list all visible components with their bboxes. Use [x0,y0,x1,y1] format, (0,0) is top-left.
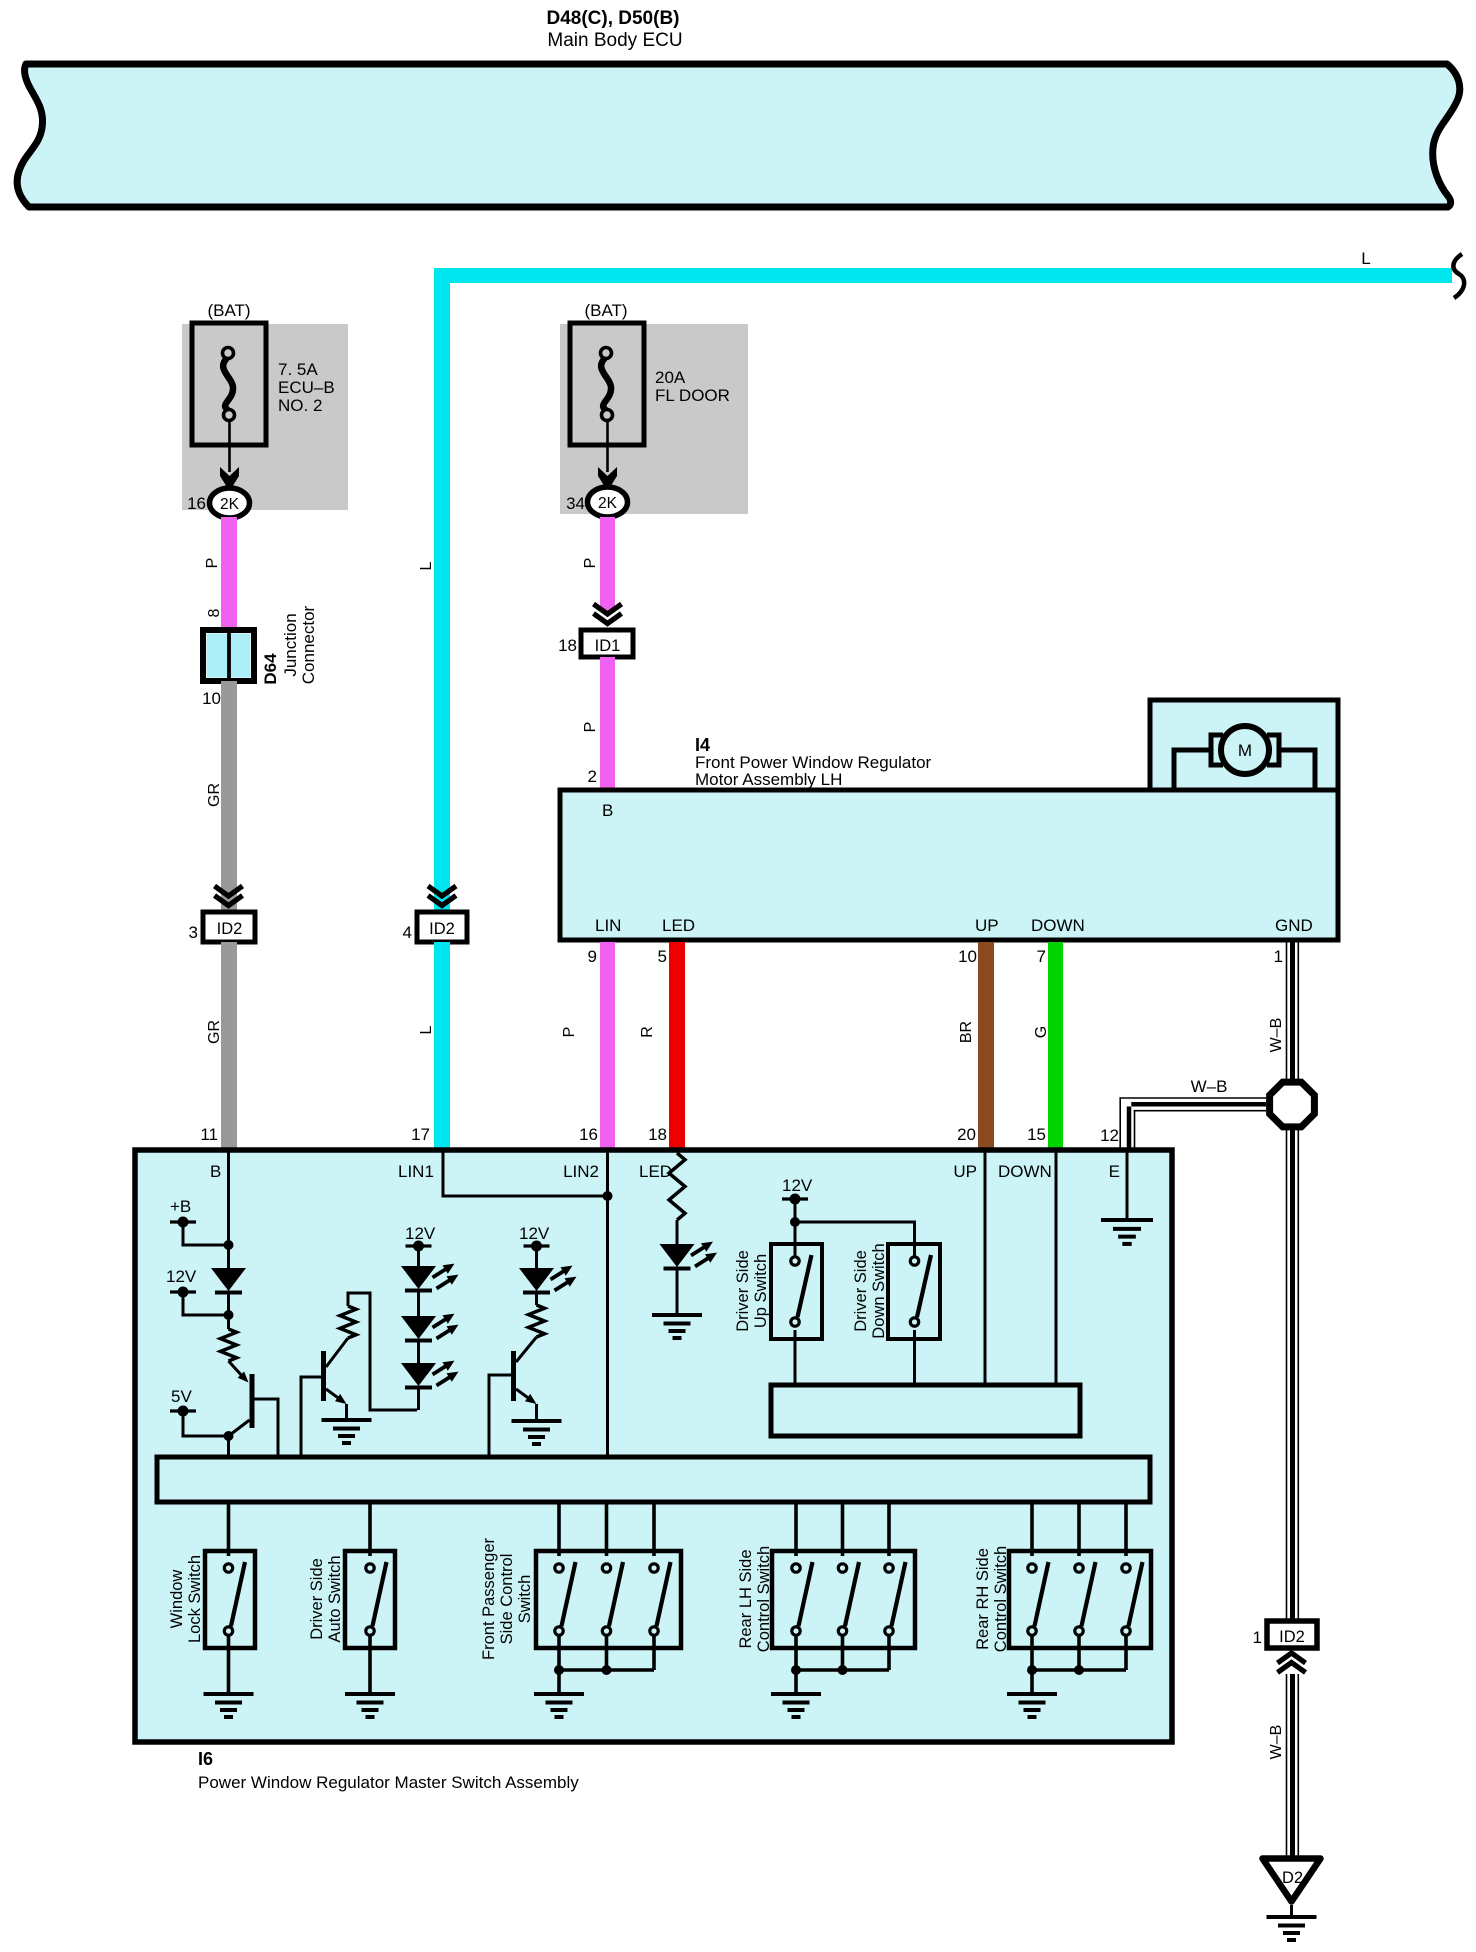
switch Rear LH Side Control Switch [772,1551,915,1648]
svg-text:Driver Side: Driver Side [734,1250,752,1332]
wire L vertical to ID2 pin 4 [434,268,450,912]
wire P fuse1 to D64 [221,517,237,630]
svg-text:5: 5 [658,947,667,966]
svg-text:34: 34 [566,494,585,513]
svg-text:11: 11 [200,1125,218,1144]
svg-text:G: G [1033,1026,1050,1038]
svg-text:Driver Side: Driver Side [852,1250,870,1332]
junction octagon W-B [1270,1082,1315,1127]
diode B column [227,1245,230,1268]
svg-text:2K: 2K [220,496,240,513]
svg-text:LIN2: LIN2 [563,1162,599,1181]
svg-text:LED: LED [662,916,695,935]
svg-text:ID2: ID2 [429,920,455,938]
svg-text:1: 1 [1274,947,1283,966]
transistor Q3 [516,1337,537,1362]
chevron into ID2 pin 4 [428,886,456,896]
ground Rear LH Side Control Switch [771,1692,821,1696]
wire G DOWN [1048,942,1063,1150]
bus bar switch common [771,1385,1080,1436]
node 12V switch junction [790,1217,800,1227]
resistor Q3 [535,1293,538,1305]
wire P LIN to LIN2 [600,942,615,1150]
svg-text:7: 7 [1037,947,1046,966]
connector ID2 pin 4 [417,912,467,942]
svg-text:ECU–B: ECU–B [278,378,335,397]
svg-text:I4: I4 [695,735,710,755]
wires bus to Front Passenger Side Control Switch [557,1502,561,1556]
svg-text:LIN: LIN [595,916,621,935]
svg-text:12V: 12V [782,1176,813,1195]
ground window lock [204,1692,254,1696]
motor housing box [1150,700,1338,795]
svg-text:(BAT): (BAT) [584,301,627,320]
LED 2 [535,1246,538,1268]
svg-text:7. 5A: 7. 5A [278,360,318,379]
connector ID2 pin 3 [203,912,255,942]
svg-text:1: 1 [1253,1628,1262,1647]
switch Front Passenger Side Control Switch [536,1551,681,1648]
svg-text:4: 4 [403,923,412,942]
svg-text:12V: 12V [405,1224,436,1243]
svg-text:+B: +B [170,1197,191,1216]
wire BR UP [978,942,994,1150]
wire LIN2 internal [606,1152,609,1459]
switch Driver Side Up [771,1244,822,1339]
wire E internal [1126,1152,1129,1220]
svg-text:W–B: W–B [1268,1018,1285,1053]
junction connector D64 [203,630,254,681]
svg-text:16: 16 [579,1125,598,1144]
ground Q2 [322,1418,372,1422]
svg-text:P: P [204,558,221,569]
fuse ECU-B NO.2 gray background [182,324,348,510]
connector ID2 pin 1 [1267,1621,1317,1648]
svg-text:Junction: Junction [281,613,300,676]
wire to up switch [794,1222,797,1256]
svg-text:Rear RH Side: Rear RH Side [974,1548,992,1650]
svg-text:L: L [418,561,435,570]
svg-text:B: B [602,801,613,820]
node 5V junction [224,1431,234,1441]
svg-text:Power Window Regulator Master: Power Window Regulator Master Switch Ass… [198,1773,579,1792]
ground driver auto [345,1692,395,1696]
LED chain 1 triple LED [417,1246,420,1266]
wire GR D64 to ID2 [221,681,237,912]
svg-text:10: 10 [202,689,221,708]
svg-text:ID2: ID2 [1279,1628,1305,1646]
svg-text:ID2: ID2 [217,920,243,938]
svg-text:Side Control: Side Control [498,1554,516,1645]
svg-text:D2: D2 [1282,1869,1303,1887]
wire fuse2 to pin 34 [606,420,609,472]
pin 34 2K connector oval [588,487,628,517]
ECU block Main Body ECU [17,64,1460,207]
svg-text:10: 10 [958,947,977,966]
wire W-B junction to pin 12 [1120,1097,1266,1099]
svg-text:Rear LH Side: Rear LH Side [737,1549,755,1648]
svg-text:Driver Side: Driver Side [308,1558,326,1640]
chevron into ID1 [594,604,622,614]
svg-text:M: M [1238,741,1252,760]
wire Rear LH Side Control Switch to ground [794,1670,798,1694]
svg-text:9: 9 [588,947,597,966]
wires Rear RH Side Control Switch common [1030,1634,1034,1670]
wire L horizontal from node to Main Body ECU [434,268,1452,283]
svg-text:GR: GR [206,1020,223,1044]
resistor Q2 collector [340,1306,356,1338]
svg-text:15: 15 [1027,1125,1046,1144]
wire Q1 to bus [227,1436,230,1459]
motor wiring [1174,750,1212,792]
transistor Q1 [229,1361,244,1377]
svg-text:DOWN: DOWN [998,1162,1052,1181]
wire P ID1 to motor assembly pin 2 [600,657,615,790]
svg-text:BR: BR [958,1021,975,1043]
transistor Q2 [301,1377,321,1459]
wire L continuation squiggle [1453,254,1464,298]
ground Rear RH Side Control Switch [1007,1692,1057,1696]
svg-text:W–B: W–B [1268,1725,1285,1760]
wire Rear RH Side Control Switch to ground [1030,1670,1034,1694]
svg-text:FL DOOR: FL DOOR [655,386,730,405]
svg-text:D64: D64 [261,653,280,685]
svg-text:3: 3 [189,923,198,942]
ground Front Passenger Side Control Switch [534,1692,584,1696]
wire DOWN internal [1055,1152,1058,1385]
svg-text:20: 20 [957,1125,976,1144]
svg-text:I6: I6 [198,1749,213,1769]
svg-text:Down Switch: Down Switch [870,1243,888,1338]
svg-text:2K: 2K [598,495,618,512]
fuse FL DOOR 20A [570,323,644,445]
wire GR ID2 to master switch pin 11 [221,942,237,1150]
wire L ID2 to master switch pin 17 [434,942,450,1150]
fuse ECU-B NO. 2 7.5A [192,323,266,445]
svg-text:Front Passenger: Front Passenger [480,1538,498,1660]
svg-text:UP: UP [953,1162,977,1181]
wire W-B GND to junction [1286,942,1288,1080]
svg-text:17: 17 [411,1125,430,1144]
svg-text:NO. 2: NO. 2 [278,396,322,415]
wire W-B junction down to ID2 [1286,1129,1288,1621]
wires Front Passenger Side Control Switch common [557,1634,561,1670]
switch Driver Side Auto [345,1551,395,1648]
svg-text:GR: GR [206,783,223,807]
svg-text:Motor Assembly LH: Motor Assembly LH [695,770,842,789]
node LIN junction [603,1191,613,1201]
svg-text:12V: 12V [519,1224,550,1243]
switch Window Lock [205,1551,255,1648]
wire up switch to bus2 [794,1330,797,1385]
fuse FL DOOR gray background [560,324,748,514]
wires bus to Rear LH Side Control Switch [794,1502,798,1556]
svg-text:Auto Switch: Auto Switch [326,1555,344,1642]
wire fuse1 to pin 16 [228,420,231,472]
wire LIN1 internal [443,1152,608,1196]
svg-text:2: 2 [588,767,597,786]
svg-text:18: 18 [648,1125,667,1144]
svg-text:Window: Window [168,1570,186,1629]
svg-text:W–B: W–B [1191,1077,1228,1096]
ground LED [652,1313,702,1317]
block I4 Front Power Window Regulator Motor Assembly LH [560,790,1338,940]
ground symbol D2 [1290,1905,1293,1917]
wires Rear LH Side Control Switch common [794,1634,798,1670]
wires bus to Rear RH Side Control Switch [1030,1502,1034,1556]
wire driver auto to ground [368,1634,372,1694]
svg-text:8: 8 [206,608,223,617]
node 12V junction [224,1310,234,1320]
motor M [1211,735,1223,765]
svg-text:UP: UP [975,916,999,935]
connector ID1 pin 18 [581,630,633,657]
svg-text:Switch: Switch [516,1575,534,1624]
svg-text:P: P [582,722,599,733]
wire B internal [227,1152,230,1245]
wire bus to window lock switch [227,1502,231,1556]
node B junction [224,1240,234,1250]
svg-text:P: P [561,1027,578,1038]
chevron into ID2 pin 3 [215,886,243,896]
svg-text:Control Switch: Control Switch [992,1546,1010,1652]
switch Rear RH Side Control Switch [1009,1551,1151,1648]
ground Q3 [512,1419,562,1423]
svg-text:16: 16 [187,494,206,513]
svg-text:12: 12 [1100,1126,1119,1145]
ground point D2 [1263,1859,1321,1902]
wire R LED [669,942,685,1150]
svg-text:D48(C), D50(B): D48(C), D50(B) [546,8,679,29]
svg-text:ID1: ID1 [595,637,621,655]
svg-text:B: B [210,1162,221,1181]
svg-text:LIN1: LIN1 [398,1162,434,1181]
wire Front Passenger Side Control Switch to ground [557,1670,561,1694]
svg-text:P: P [582,558,599,569]
pin 16 2K connector oval [210,488,250,518]
svg-text:DOWN: DOWN [1031,916,1085,935]
svg-text:Main Body ECU: Main Body ECU [547,30,682,51]
wire window lock to ground [227,1634,231,1694]
svg-text:Up Switch: Up Switch [752,1254,770,1328]
svg-text:GND: GND [1275,916,1313,935]
wire bus to driver auto switch [368,1502,372,1556]
block I6 Power Window Regulator Master Switch Assembly [135,1150,1172,1742]
svg-text:E: E [1109,1162,1120,1181]
svg-text:20A: 20A [655,368,686,387]
wire down switch to bus2 [913,1330,916,1385]
wire P fuse2 to ID1 [600,517,615,612]
switch Driver Side Down [888,1244,940,1339]
svg-text:Lock Switch: Lock Switch [186,1555,204,1643]
resistor B column [227,1315,230,1329]
wire UP internal [984,1152,987,1385]
svg-text:5V: 5V [171,1387,192,1406]
resistor LED pin [669,1153,685,1220]
svg-text:Connector: Connector [299,605,318,684]
chevron out of ID2 pin 1 [1278,1653,1306,1663]
svg-text:LED: LED [639,1162,672,1181]
LED indicator [676,1220,679,1244]
svg-text:L: L [1361,249,1370,268]
svg-text:L: L [418,1025,435,1034]
svg-text:(BAT): (BAT) [207,301,250,320]
svg-text:18: 18 [558,636,577,655]
wire W-B ID2 to ground D2 [1286,1674,1288,1857]
bus bar main [157,1457,1150,1502]
svg-text:Control Switch: Control Switch [755,1546,773,1652]
ground E [1101,1218,1153,1222]
svg-text:R: R [639,1026,656,1038]
svg-text:12V: 12V [166,1267,197,1286]
